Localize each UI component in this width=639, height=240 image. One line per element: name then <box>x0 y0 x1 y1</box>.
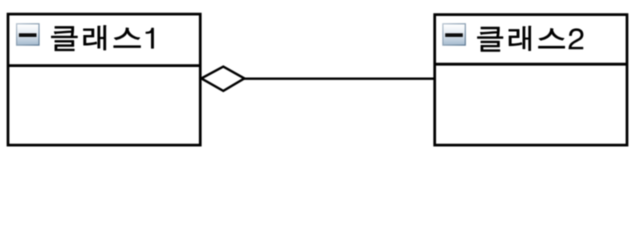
class name label 클래스2 <box>478 26 583 51</box>
aggregation diamond <box>201 67 244 91</box>
name compartment divider (Class2) <box>435 63 627 66</box>
class box Class1 <box>8 14 200 145</box>
collapse icon (Class1) <box>16 23 40 46</box>
class name label 클래스1 <box>51 26 153 51</box>
collapse icon (Class2) <box>442 23 466 46</box>
name compartment divider (Class1) <box>8 64 200 67</box>
class box Class2 <box>435 15 627 146</box>
association line <box>240 77 435 79</box>
